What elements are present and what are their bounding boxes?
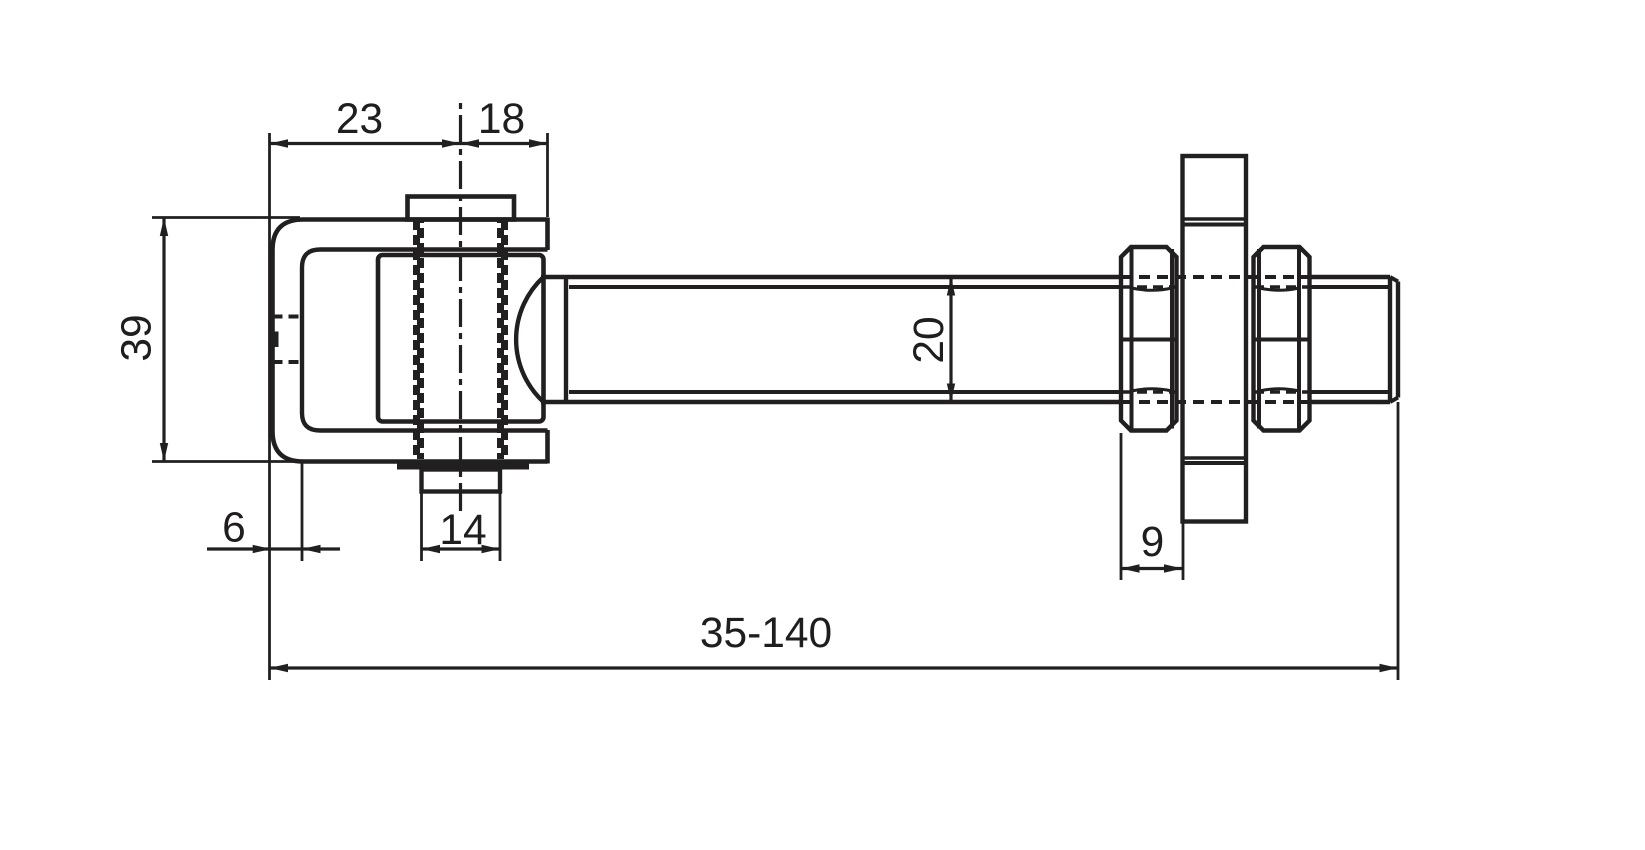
rod end face: [1396, 282, 1400, 398]
svg-text:6: 6: [222, 505, 246, 552]
dim line 39: [162, 218, 165, 462]
arrow 23 left: [270, 139, 289, 147]
left nut chamfer arc top: [1132, 288, 1173, 290]
rod neck to thread boundary: [564, 277, 568, 402]
rod bottom edge hidden through nuts and plate: [1121, 400, 1309, 404]
bracket top arm end face: [545, 218, 550, 251]
dim line 6: [207, 547, 340, 550]
dim 9 extension line left: [1120, 433, 1123, 580]
arrow 35-140 right: [1380, 664, 1399, 672]
dim 9 extension line right: [1182, 523, 1185, 580]
plate top inner line 1: [1185, 217, 1245, 221]
arrow 6 right (outside): [302, 545, 321, 553]
pin hidden thread line left inner: [417, 220, 424, 459]
eye fillet arc: [516, 277, 543, 402]
bushing body: [378, 255, 544, 422]
dim line 23 and 18: [270, 142, 548, 145]
dim line 35-140: [270, 666, 1399, 669]
rod bottom edge solid right: [1309, 400, 1390, 405]
plate top inner line 2: [1183, 223, 1247, 227]
pin centerline: [459, 103, 462, 512]
thread root line top left: [569, 285, 1121, 289]
rod top edge solid right: [1309, 275, 1390, 280]
svg-text:18: 18: [478, 96, 525, 143]
pin hidden thread line right outer: [501, 220, 508, 459]
bracket bottom arm end face: [545, 430, 550, 464]
left nut chamfer arc bottom: [1132, 389, 1173, 391]
svg-text:35-140: 35-140: [700, 610, 832, 657]
dim line 14: [422, 547, 501, 550]
rod end chamfer start line: [1388, 277, 1392, 402]
left nut hex mid line: [1121, 338, 1177, 342]
right nut face line left: [1257, 249, 1261, 429]
plate bottom inner line 1: [1185, 456, 1245, 460]
dim line 20: [949, 277, 952, 402]
arrow 23 right: [442, 139, 461, 147]
svg-text:39: 39: [114, 314, 161, 361]
jam nut solid band: [397, 461, 529, 470]
left nut face line left: [1130, 247, 1134, 431]
bracket outer contour: [273, 220, 548, 462]
svg-text:20: 20: [906, 316, 953, 363]
left nut outline: [1121, 247, 1177, 431]
arrow 14 left: [422, 545, 441, 553]
dim 39 extension line bottom: [152, 460, 300, 463]
left nut face line right: [1170, 249, 1174, 429]
arrow 6 left (outside): [253, 545, 272, 553]
arrow 39 top: [160, 218, 168, 237]
thread root hidden in right nut bottom: [1254, 390, 1309, 394]
plate bottom inner line 2: [1183, 461, 1247, 465]
thread root line top right: [1309, 285, 1390, 289]
bracket wall hole hidden line top: [273, 315, 303, 319]
pin hidden thread line right inner: [497, 220, 504, 459]
svg-text:9: 9: [1141, 519, 1165, 566]
rod top edge solid left: [541, 275, 1121, 280]
right nut chamfer arc top: [1259, 288, 1299, 290]
svg-text:23: 23: [336, 96, 383, 143]
right nut chamfer arc bottom: [1259, 389, 1299, 391]
thread root hidden in right nut top: [1254, 285, 1309, 289]
pin bottom nut: [422, 470, 501, 492]
arrow 39 bottom: [160, 443, 168, 462]
bracket wall hole hidden line bottom: [273, 360, 303, 364]
dim 6 extension line right: [301, 462, 304, 561]
rod end chamfer top: [1390, 277, 1398, 282]
arrow 20 bottom: [947, 384, 955, 403]
svg-text:14: 14: [439, 507, 486, 554]
arrow 14 right: [482, 545, 501, 553]
thread root hidden in left nut bottom: [1121, 390, 1178, 394]
arrow 35-140 left: [270, 664, 289, 672]
bracket inner contour: [302, 250, 548, 431]
plate outline: [1183, 156, 1247, 522]
arrow 9 left: [1121, 564, 1140, 572]
right nut outline: [1254, 247, 1310, 431]
dim 35-140 extension line right: [1397, 402, 1400, 680]
rod end chamfer bottom: [1390, 398, 1398, 403]
thread root hidden in left nut top: [1121, 285, 1178, 289]
dim 14 extension line left: [420, 492, 423, 561]
bracket wall hole hidden vertical dash: [275, 332, 279, 348]
arrow 9 right: [1164, 564, 1183, 572]
rod top edge hidden through nuts and plate: [1121, 275, 1309, 279]
pin hidden thread line left outer: [413, 220, 420, 459]
thread root line bottom right: [1309, 390, 1390, 394]
rod bottom edge solid left: [541, 400, 1121, 405]
pin top cap: [408, 197, 515, 220]
right nut face line right: [1297, 247, 1301, 431]
thread root line bottom left: [569, 390, 1121, 394]
dim 39 extension line top: [152, 216, 300, 219]
dim 23/18 extension line right: [546, 133, 549, 217]
arrow 18 right: [529, 139, 548, 147]
arrow 20 top: [947, 277, 955, 296]
dim 14 extension line right: [499, 492, 502, 561]
dim 23/18 extension line left: [268, 133, 271, 680]
right nut hex mid line: [1254, 338, 1310, 342]
arrow 18 left: [461, 139, 480, 147]
dim line 9: [1121, 567, 1183, 570]
